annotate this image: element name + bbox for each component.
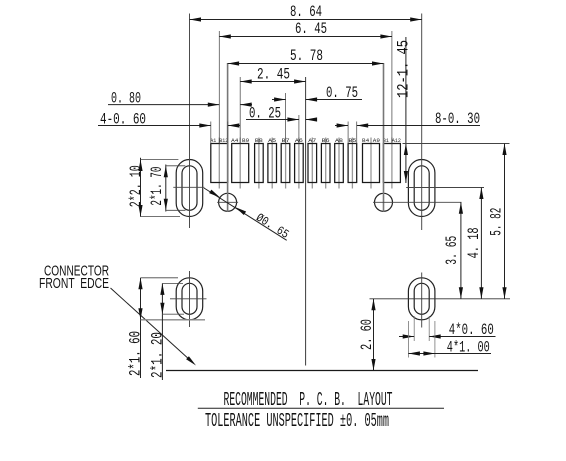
svg-text:8. 64: 8. 64 [290,3,322,21]
svg-text:8-0. 30: 8-0. 30 [435,110,480,128]
svg-text:6. 45: 6. 45 [295,20,327,38]
svg-text:2. 60: 2. 60 [358,319,376,350]
svg-text:4-0. 60: 4-0. 60 [100,111,146,129]
svg-text:4*0. 60: 4*0. 60 [449,321,494,339]
svg-text:5. 82: 5. 82 [488,208,506,236]
svg-text:2*2. 10: 2*2. 10 [127,165,145,207]
svg-text:2*1. 70: 2*1. 70 [148,167,166,206]
svg-text:B6: B6 [322,138,330,144]
svg-text:0. 75: 0. 75 [326,84,358,102]
svg-text:FRONT EDCE: FRONT EDCE [39,276,109,292]
svg-text:3. 65: 3. 65 [443,236,461,265]
svg-text:2*1. 20: 2*1. 20 [149,332,167,378]
svg-text:B8: B8 [255,138,263,144]
svg-text:4*1. 00: 4*1. 00 [447,339,490,357]
svg-text:B4 A9: B4 A9 [362,138,380,144]
svg-text:0. 25: 0. 25 [249,105,281,123]
svg-text:2*1. 60: 2*1. 60 [127,331,145,376]
svg-text:B5: B5 [348,138,356,144]
svg-text:2. 45: 2. 45 [257,66,290,84]
svg-text:A5: A5 [268,138,276,144]
svg-text:12-1. 45: 12-1. 45 [394,40,412,98]
svg-text:4. 18: 4. 18 [465,227,483,258]
svg-text:0. 80: 0. 80 [111,90,141,108]
svg-text:A8: A8 [335,138,343,144]
svg-text:A7: A7 [308,138,316,144]
svg-text:5. 78: 5. 78 [290,47,323,65]
svg-text:TOLERANCE UNSPECIFIED ±0. 05mm: TOLERANCE UNSPECIFIED ±0. 05mm [205,410,389,432]
